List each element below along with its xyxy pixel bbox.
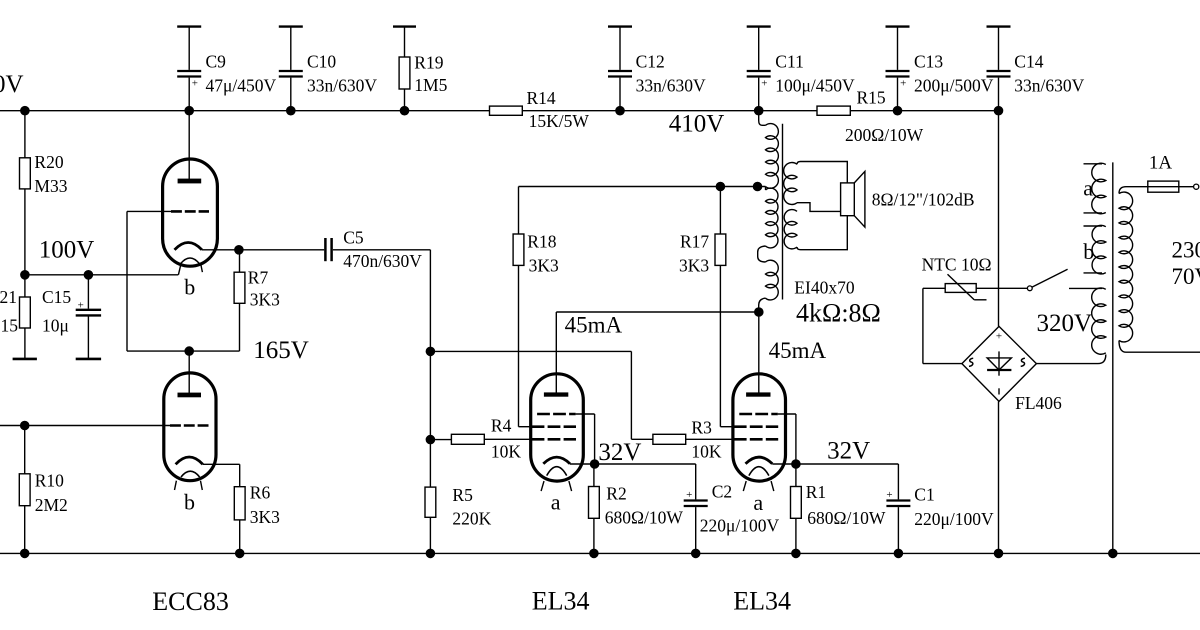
svg-text:165V: 165V — [253, 337, 309, 364]
svg-text:470n/630V: 470n/630V — [343, 251, 422, 271]
svg-text:+: + — [192, 78, 198, 90]
svg-text:R15: R15 — [857, 88, 886, 108]
svg-text:M33: M33 — [34, 176, 67, 196]
svg-text:R20: R20 — [34, 152, 63, 172]
svg-text:R1: R1 — [806, 482, 826, 502]
svg-text:220μ/100V: 220μ/100V — [700, 516, 780, 536]
svg-text:220K: 220K — [452, 509, 491, 529]
svg-text:32V: 32V — [827, 438, 870, 465]
svg-text:+: + — [78, 299, 84, 311]
svg-text:EL34: EL34 — [532, 587, 590, 616]
svg-text:b: b — [184, 275, 195, 300]
svg-text:C14: C14 — [1014, 51, 1043, 71]
svg-text:230V: 230V — [1172, 238, 1200, 263]
svg-text:C9: C9 — [206, 51, 227, 71]
svg-text:C5: C5 — [343, 227, 364, 247]
svg-text:320V: 320V — [1037, 310, 1093, 337]
svg-text:680Ω/10W: 680Ω/10W — [807, 508, 886, 528]
svg-text:+: + — [900, 78, 906, 90]
svg-text:47μ/450V: 47μ/450V — [206, 76, 277, 96]
svg-text:+: + — [996, 331, 1002, 343]
svg-text:15K/5W: 15K/5W — [529, 111, 590, 131]
svg-text:ECC83: ECC83 — [152, 587, 229, 616]
svg-text:R6: R6 — [250, 483, 271, 503]
svg-text:3K3: 3K3 — [250, 290, 280, 310]
svg-text:a: a — [1083, 176, 1093, 201]
svg-text:+: + — [686, 489, 692, 501]
svg-text:C10: C10 — [307, 51, 336, 71]
svg-text:R17: R17 — [680, 232, 709, 252]
svg-text:10K: 10K — [491, 442, 522, 462]
svg-text:C1: C1 — [914, 485, 934, 505]
svg-text:4kΩ:8Ω: 4kΩ:8Ω — [796, 299, 881, 328]
svg-text:M15: M15 — [0, 316, 18, 336]
svg-text:3K3: 3K3 — [529, 256, 559, 276]
svg-text:200Ω/10W: 200Ω/10W — [845, 125, 924, 145]
svg-text:1M5: 1M5 — [414, 75, 447, 95]
svg-text:3K3: 3K3 — [679, 256, 709, 276]
svg-text:33n/630V: 33n/630V — [636, 76, 706, 96]
svg-text:R7: R7 — [248, 267, 269, 287]
svg-text:10K: 10K — [691, 442, 722, 462]
svg-text:b: b — [184, 489, 195, 514]
svg-text:EL34: EL34 — [733, 587, 791, 616]
svg-text:200μ/500V: 200μ/500V — [914, 76, 994, 96]
svg-text:70VA: 70VA — [1172, 264, 1200, 289]
svg-text:1A: 1A — [1149, 153, 1173, 174]
svg-text:R19: R19 — [414, 53, 443, 73]
svg-text:32V: 32V — [598, 439, 641, 466]
svg-text:EI40x70: EI40x70 — [794, 277, 855, 297]
svg-text:45mA: 45mA — [769, 338, 827, 363]
svg-text:R21: R21 — [0, 287, 17, 307]
svg-text:b: b — [1083, 239, 1094, 264]
svg-text:NTC 10Ω: NTC 10Ω — [922, 255, 992, 275]
svg-text:100μ/450V: 100μ/450V — [775, 76, 855, 96]
svg-text:+: + — [886, 489, 892, 501]
svg-text:45mA: 45mA — [565, 313, 623, 338]
svg-text:FL406: FL406 — [1015, 393, 1062, 413]
svg-text:R18: R18 — [527, 232, 556, 252]
svg-text:R5: R5 — [452, 485, 473, 505]
svg-text:10μ: 10μ — [42, 316, 69, 336]
svg-text:33n/630V: 33n/630V — [307, 76, 377, 96]
svg-text:C13: C13 — [914, 51, 943, 71]
svg-text:C12: C12 — [636, 51, 665, 71]
svg-text:a: a — [753, 490, 763, 515]
svg-text:3K3: 3K3 — [250, 507, 280, 527]
svg-text:C2: C2 — [712, 481, 732, 501]
svg-text:8Ω/12"/102dB: 8Ω/12"/102dB — [872, 189, 975, 209]
svg-text:680Ω/10W: 680Ω/10W — [605, 508, 684, 528]
svg-text:2M2: 2M2 — [35, 495, 68, 515]
svg-text:C15: C15 — [42, 287, 71, 307]
svg-text:R10: R10 — [35, 471, 64, 491]
svg-text:470V: 470V — [0, 71, 24, 98]
svg-text:33n/630V: 33n/630V — [1014, 76, 1084, 96]
svg-text:220μ/100V: 220μ/100V — [914, 509, 994, 529]
svg-text:R2: R2 — [606, 484, 626, 504]
svg-text:R3: R3 — [691, 418, 712, 438]
svg-text:R4: R4 — [491, 415, 512, 435]
svg-text:100V: 100V — [39, 237, 95, 264]
svg-text:C11: C11 — [775, 51, 804, 71]
svg-text:a: a — [551, 490, 561, 515]
svg-text:R14: R14 — [527, 88, 556, 108]
svg-text:410V: 410V — [669, 110, 725, 137]
svg-text:+: + — [761, 78, 767, 90]
